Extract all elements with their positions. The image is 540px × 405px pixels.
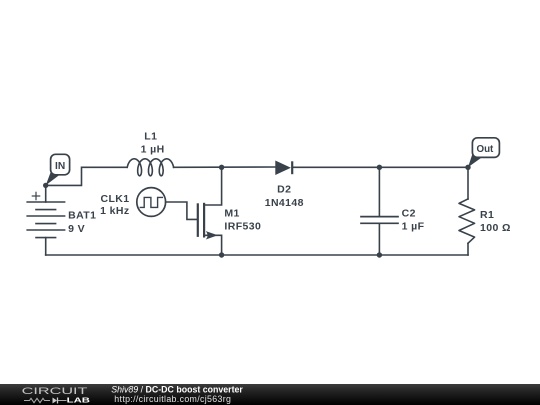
svg-text:1 µF: 1 µF	[402, 221, 425, 233]
wire battery bottom	[45, 238, 47, 255]
svg-text:C2: C2	[402, 207, 416, 219]
svg-text:R1: R1	[480, 209, 494, 221]
wire L1 to D2	[174, 166, 276, 168]
svg-text:L1: L1	[144, 131, 157, 143]
svg-text:CLK1: CLK1	[100, 193, 129, 205]
svg-text:1N4148: 1N4148	[265, 197, 304, 209]
flag Out box	[472, 138, 499, 158]
svg-text:9 V: 9 V	[68, 223, 85, 235]
capacitor C2 bottom wire	[378, 223, 380, 255]
capacitor C2 top wire	[378, 167, 380, 216]
junction node dots	[43, 165, 471, 258]
transistor M1 channel bar	[203, 204, 205, 237]
battery BAT1	[27, 202, 64, 238]
wire Out corner down to R1	[467, 167, 469, 199]
svg-text:1 kHz: 1 kHz	[100, 205, 129, 217]
transistor M1 source wire	[204, 235, 222, 255]
wire R1 to bottom rail	[467, 243, 469, 255]
svg-text:IN: IN	[55, 161, 65, 172]
svg-text:1 µH: 1 µH	[141, 144, 165, 156]
clock source CLK1	[137, 188, 166, 217]
resistor R1	[459, 199, 475, 243]
flag IN pointer	[46, 171, 60, 186]
wire D2 to Out corner	[292, 166, 468, 168]
wire battery top	[45, 185, 47, 202]
svg-text:BAT1: BAT1	[68, 210, 96, 222]
flag Out pointer	[468, 152, 482, 168]
wire CLK1 to gate	[166, 202, 197, 219]
flag IN box	[51, 154, 70, 175]
transistor M1 drain wire	[204, 167, 222, 205]
svg-text:Out: Out	[476, 144, 494, 155]
battery plus sign	[32, 192, 39, 199]
svg-text:http://circuitlab.com/cj563rg: http://circuitlab.com/cj563rg	[114, 394, 231, 404]
logo resistor zigzag	[24, 398, 50, 402]
inductor L1	[127, 159, 173, 176]
diode D2	[276, 161, 292, 174]
clock waveform	[140, 197, 162, 207]
capacitor C2 plates	[361, 217, 398, 224]
wire bottom rail	[46, 254, 468, 256]
svg-text:100 Ω: 100 Ω	[480, 222, 511, 234]
svg-text:IRF530: IRF530	[224, 220, 261, 232]
transistor M1 source arrow	[206, 231, 218, 239]
logo diode	[53, 398, 58, 404]
svg-text:D2: D2	[277, 184, 291, 196]
transistor M1 gate bar	[197, 204, 199, 235]
wire IN junction to bend	[46, 167, 128, 185]
svg-text:M1: M1	[224, 208, 239, 220]
svg-text:LAB: LAB	[67, 395, 91, 404]
